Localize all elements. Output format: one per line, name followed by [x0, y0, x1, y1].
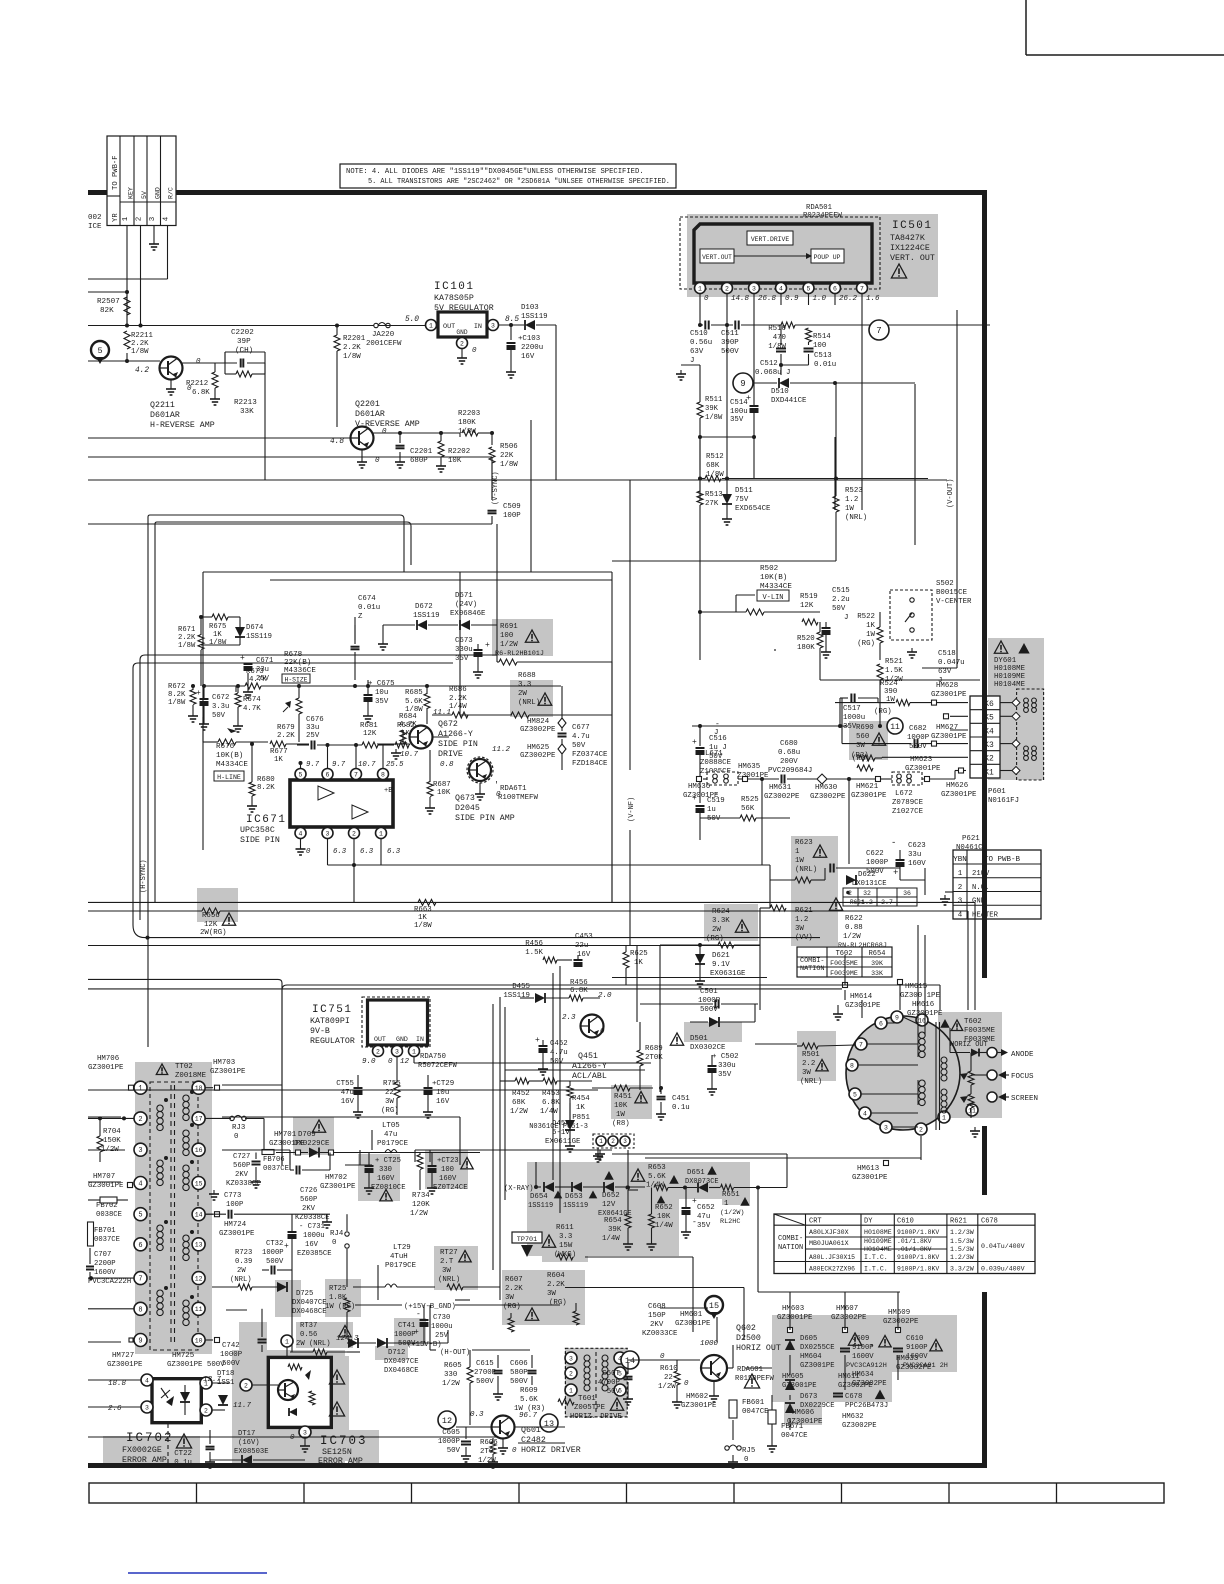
svg-text:33u: 33u	[306, 724, 319, 732]
svg-text:16V: 16V	[341, 1098, 355, 1106]
svg-text:1/2W: 1/2W	[410, 1210, 428, 1218]
svg-text:C60T: C60T	[602, 1370, 620, 1378]
svg-text:R672: R672	[168, 683, 185, 691]
svg-text:T602: T602	[836, 950, 853, 958]
svg-text:2W (NRL): 2W (NRL)	[296, 1340, 331, 1348]
svg-text:56K: 56K	[741, 805, 755, 813]
svg-text:C730: C730	[433, 1314, 450, 1322]
svg-text:D601AR: D601AR	[150, 411, 180, 420]
svg-text:Z: Z	[358, 613, 363, 621]
svg-text:TA8427K: TA8427K	[890, 234, 925, 243]
svg-text:GZ3001PE: GZ3001PE	[852, 1174, 888, 1182]
svg-text:1000P: 1000P	[866, 859, 889, 867]
svg-text:5.6K: 5.6K	[648, 1173, 666, 1181]
svg-text:R681: R681	[360, 722, 378, 730]
svg-text:3: 3	[884, 1124, 888, 1131]
svg-text:R512: R512	[706, 453, 724, 461]
svg-text:D601AR: D601AR	[355, 410, 385, 419]
svg-text:SIDE PIN: SIDE PIN	[240, 836, 280, 845]
svg-text:R454: R454	[572, 1095, 590, 1103]
svg-text:+ CT25: + CT25	[375, 1157, 401, 1165]
svg-text:0.9: 0.9	[785, 295, 799, 303]
svg-text:2: 2	[376, 1048, 380, 1055]
svg-text:3: 3	[303, 1429, 307, 1436]
svg-text:0.88: 0.88	[845, 924, 863, 932]
svg-text:100P: 100P	[503, 512, 521, 520]
svg-text:35V: 35V	[718, 1071, 732, 1079]
svg-text:(V-NF): (V-NF)	[628, 797, 636, 822]
svg-text:R651: R651	[722, 1191, 740, 1199]
svg-text:9100P/1.8KV: 9100P/1.8KV	[897, 1254, 939, 1261]
svg-text:6.8K: 6.8K	[570, 987, 588, 995]
svg-text:4: 4	[163, 216, 171, 221]
svg-text:HM625: HM625	[527, 744, 549, 752]
svg-text:Q2201: Q2201	[355, 400, 380, 409]
svg-text:H0109ME: H0109ME	[864, 1238, 892, 1245]
svg-text:C609: C609	[852, 1335, 869, 1343]
svg-text:1/8W: 1/8W	[168, 699, 186, 707]
svg-text:C674: C674	[358, 595, 376, 603]
svg-text:COMBI-: COMBI-	[778, 1235, 803, 1243]
svg-text:H-LINE: H-LINE	[217, 774, 241, 781]
svg-text:0: 0	[512, 1447, 517, 1455]
svg-text:(NRL): (NRL)	[845, 514, 867, 522]
svg-text:1: 1	[942, 1114, 946, 1121]
svg-text:1K: 1K	[213, 631, 222, 639]
svg-text:CT41: CT41	[398, 1322, 415, 1330]
svg-text:0038CE: 0038CE	[96, 1211, 122, 1219]
svg-text:0.1u: 0.1u	[672, 1104, 690, 1112]
svg-text:R679: R679	[277, 724, 295, 732]
svg-text:GZ3002PE: GZ3002PE	[520, 752, 556, 760]
svg-text:10K: 10K	[437, 789, 451, 797]
svg-text:10u: 10u	[375, 689, 388, 697]
svg-text:10K: 10K	[614, 1102, 628, 1110]
svg-text:16V: 16V	[305, 1241, 319, 1249]
svg-text:EX06846E: EX06846E	[450, 610, 486, 618]
svg-text:1K: 1K	[274, 756, 283, 764]
svg-text:R673: R673	[246, 668, 264, 676]
svg-text:D510: D510	[771, 388, 789, 396]
svg-text:3.3u: 3.3u	[212, 703, 229, 711]
svg-text:10K: 10K	[657, 1213, 671, 1221]
svg-text:F0039ME: F0039ME	[830, 970, 858, 977]
svg-text:HM626: HM626	[946, 782, 968, 790]
svg-text:CT22: CT22	[174, 1450, 192, 1458]
svg-text:9.7: 9.7	[306, 761, 320, 769]
svg-text:96.7: 96.7	[519, 1412, 538, 1420]
svg-text:13: 13	[195, 1242, 203, 1249]
svg-text:VERT. OUT: VERT. OUT	[890, 254, 935, 263]
svg-text:R675: R675	[209, 623, 226, 631]
svg-text:+: +	[196, 689, 201, 698]
svg-text:HORIZ. DRIVE: HORIZ. DRIVE	[570, 1413, 622, 1421]
svg-text:50V: 50V	[572, 742, 586, 750]
svg-text:12V: 12V	[602, 1201, 616, 1209]
svg-text:39K: 39K	[871, 960, 883, 967]
svg-text:2.2K: 2.2K	[277, 732, 295, 740]
svg-text:3: 3	[149, 216, 157, 221]
svg-text:R652: R652	[655, 1204, 673, 1212]
svg-text:(1/2W): (1/2W)	[720, 1209, 744, 1217]
svg-text:SIDE PIN: SIDE PIN	[438, 740, 478, 749]
svg-text:GZ3002PE: GZ3002PE	[520, 726, 556, 734]
svg-text:9100P/1.8KV: 9100P/1.8KV	[897, 1229, 939, 1236]
svg-text:IC703: IC703	[320, 1434, 368, 1448]
svg-text:GND: GND	[456, 329, 467, 336]
svg-text:T602: T602	[964, 1018, 982, 1026]
svg-text:17: 17	[195, 1116, 203, 1123]
svg-text:1.2: 1.2	[795, 916, 808, 924]
svg-text:1/8W: 1/8W	[178, 642, 196, 650]
svg-text:H0104ME: H0104ME	[994, 681, 1026, 689]
svg-text:(NRL): (NRL)	[230, 1276, 252, 1284]
svg-text:1/4W: 1/4W	[540, 1108, 558, 1116]
svg-text:8: 8	[381, 771, 385, 778]
svg-text:HM607: HM607	[836, 1305, 858, 1313]
svg-text:1: 1	[429, 322, 433, 329]
svg-text:C742: C742	[222, 1342, 240, 1350]
svg-text:Q673: Q673	[455, 794, 475, 803]
svg-text:HM636: HM636	[688, 783, 710, 791]
svg-text:R674: R674	[243, 696, 261, 704]
svg-text:R604: R604	[547, 1272, 565, 1280]
svg-text:0: 0	[600, 1028, 605, 1036]
svg-text:R688: R688	[518, 672, 536, 680]
svg-text:IC702: IC702	[126, 1431, 174, 1445]
svg-text:1: 1	[724, 1200, 729, 1208]
svg-text:- C731: - C731	[299, 1223, 325, 1231]
svg-text:GZ3002PE: GZ3002PE	[764, 793, 800, 801]
svg-text:0.01u: 0.01u	[814, 361, 836, 369]
svg-text:FB601: FB601	[742, 1399, 765, 1407]
svg-text:PVC3CA222H: PVC3CA222H	[88, 1278, 131, 1286]
svg-text:25.5: 25.5	[386, 761, 404, 769]
svg-text:180K: 180K	[458, 419, 476, 427]
svg-text:2: 2	[244, 1382, 248, 1389]
svg-text:+C103: +C103	[518, 335, 540, 343]
svg-text:16V: 16V	[436, 1098, 450, 1106]
svg-text:GZ3001PE: GZ3001PE	[800, 1362, 835, 1370]
svg-text:2W(RG): 2W(RG)	[200, 929, 227, 937]
svg-text:1SS119: 1SS119	[521, 313, 548, 321]
svg-text:2: 2	[611, 1138, 615, 1145]
svg-text:16V: 16V	[577, 951, 591, 959]
svg-text:12: 12	[442, 1416, 452, 1426]
svg-text:2: 2	[569, 1370, 573, 1377]
svg-text:DX0302CE: DX0302CE	[690, 1044, 726, 1052]
svg-text:50V: 50V	[607, 1388, 621, 1396]
svg-text:0: 0	[306, 848, 311, 856]
svg-text:ANODE: ANODE	[1011, 1051, 1034, 1059]
svg-text:C678: C678	[981, 1218, 998, 1226]
svg-text:1W: 1W	[845, 505, 854, 513]
svg-text:5: 5	[138, 1212, 142, 1220]
svg-text:(16V): (16V)	[238, 1439, 260, 1447]
svg-text:HM602: HM602	[686, 1393, 708, 1401]
svg-text:4: 4	[779, 285, 783, 292]
svg-text:14: 14	[195, 1212, 203, 1219]
svg-text:D501: D501	[690, 1035, 708, 1043]
svg-text:(24V): (24V)	[455, 601, 477, 609]
svg-text:3W: 3W	[442, 1267, 451, 1275]
svg-text:C671: C671	[256, 657, 273, 665]
svg-text:1.2: 1.2	[845, 496, 858, 504]
svg-text:P601: P601	[988, 788, 1006, 796]
svg-text:C677: C677	[572, 724, 590, 732]
svg-text:2.6: 2.6	[108, 1405, 122, 1413]
svg-text:10.7: 10.7	[358, 761, 376, 769]
svg-text:2200P: 2200P	[94, 1260, 116, 1268]
svg-text:6.3: 6.3	[387, 848, 401, 856]
svg-text:3.3/2W: 3.3/2W	[950, 1266, 974, 1273]
svg-text:5.6K: 5.6K	[520, 1396, 538, 1404]
svg-text:9: 9	[740, 379, 745, 389]
svg-text:R686: R686	[449, 686, 467, 694]
svg-text:8: 8	[138, 1306, 142, 1314]
svg-text:C726: C726	[300, 1187, 317, 1195]
svg-text:D651: D651	[687, 1169, 705, 1177]
svg-text:2KV: 2KV	[302, 1205, 316, 1213]
svg-text:7: 7	[354, 771, 358, 778]
svg-text:HM707: HM707	[93, 1173, 115, 1181]
svg-text:YR: YR	[112, 213, 120, 222]
svg-text:500V: 500V	[222, 1360, 240, 1368]
svg-text:I.T.C.: I.T.C.	[864, 1266, 888, 1273]
svg-text:0.68u: 0.68u	[778, 749, 800, 757]
svg-text:9100P: 9100P	[906, 1344, 928, 1352]
svg-text:KAT809PI: KAT809PI	[310, 1017, 350, 1026]
svg-text:R452: R452	[512, 1090, 530, 1098]
svg-text:V-CENTER: V-CENTER	[936, 598, 972, 606]
svg-text:1/8W: 1/8W	[343, 353, 361, 361]
svg-text:0.56: 0.56	[300, 1331, 317, 1339]
svg-text:10K(B): 10K(B)	[760, 574, 787, 582]
svg-text:A80L.JF30X15: A80L.JF30X15	[809, 1254, 855, 1261]
svg-text:DX0131CE: DX0131CE	[852, 880, 887, 888]
svg-text:2.2K: 2.2K	[505, 1285, 523, 1293]
svg-text:GZ3002PE: GZ3002PE	[883, 1318, 919, 1326]
svg-text:470: 470	[773, 334, 786, 342]
svg-text:Q602: Q602	[736, 1324, 756, 1333]
svg-text:FB701: FB701	[94, 1227, 116, 1235]
svg-text:R522: R522	[857, 613, 875, 621]
svg-text:5: 5	[97, 346, 102, 356]
svg-text:2.2: 2.2	[802, 1060, 815, 1068]
svg-text:0: 0	[744, 1456, 748, 1464]
svg-text:0.1u: 0.1u	[174, 1459, 192, 1467]
svg-text:1SS119: 1SS119	[246, 633, 272, 641]
svg-text:1/4W: 1/4W	[655, 1222, 673, 1230]
svg-text:Z1027CE: Z1027CE	[892, 808, 924, 816]
svg-text:4: 4	[863, 1110, 867, 1117]
svg-text:C516: C516	[709, 735, 727, 743]
svg-text:IC671: IC671	[246, 814, 287, 826]
svg-text:1000P: 1000P	[220, 1351, 243, 1359]
svg-text:R605: R605	[444, 1362, 462, 1370]
svg-text:0037CE: 0037CE	[263, 1165, 289, 1173]
svg-text:GZ3001PE: GZ3001PE	[851, 792, 887, 800]
svg-text:HM613: HM613	[857, 1165, 879, 1173]
svg-text:0.56u: 0.56u	[690, 339, 712, 347]
svg-text:0: 0	[382, 428, 387, 436]
svg-text:2: 2	[725, 285, 729, 292]
svg-text:2T0K: 2T0K	[645, 1054, 663, 1062]
svg-text:R2202: R2202	[448, 448, 470, 456]
svg-text:FB671: FB671	[781, 1423, 804, 1431]
svg-text:5V: 5V	[141, 191, 148, 199]
svg-text:2W: 2W	[518, 690, 527, 698]
svg-text:D654: D654	[530, 1193, 548, 1201]
svg-text:RJ4: RJ4	[330, 1230, 344, 1238]
svg-text:GZ3002PE: GZ3002PE	[838, 1382, 873, 1390]
svg-text:1K: 1K	[866, 622, 875, 630]
svg-text:3.3: 3.3	[559, 1233, 572, 1241]
svg-text:1/2W: 1/2W	[510, 1108, 528, 1116]
svg-text:D673: D673	[800, 1393, 817, 1401]
svg-text:DX0229CE: DX0229CE	[294, 1140, 330, 1148]
svg-text:GZ3001PE: GZ3001PE	[777, 1314, 813, 1322]
svg-text:390: 390	[884, 688, 897, 696]
svg-text:1600V: 1600V	[852, 1353, 874, 1361]
svg-text:HM702: HM702	[325, 1174, 347, 1182]
svg-text:2.2K: 2.2K	[547, 1281, 565, 1289]
svg-text:EX08503E: EX08503E	[234, 1448, 269, 1456]
svg-text:R723: R723	[235, 1249, 252, 1257]
svg-text:7: 7	[859, 1041, 863, 1048]
svg-text:D712: D712	[388, 1349, 405, 1357]
svg-text:1K: 1K	[576, 1104, 585, 1112]
svg-text:HM628: HM628	[936, 682, 958, 690]
svg-text:I.T.C.: I.T.C.	[864, 1254, 888, 1261]
svg-text:C518: C518	[938, 650, 956, 658]
svg-text:M4334CE: M4334CE	[216, 761, 248, 769]
svg-text:18.8: 18.8	[108, 1380, 127, 1388]
svg-text:P0179CE: P0179CE	[377, 1140, 409, 1148]
svg-text:R525: R525	[741, 796, 759, 804]
svg-text:2: 2	[138, 1116, 142, 1124]
svg-text:C652: C652	[697, 1204, 715, 1212]
svg-text:TO PWB-F: TO PWB-F	[112, 155, 120, 190]
svg-text:R513: R513	[705, 491, 723, 499]
svg-text:GZ3001PE: GZ3001PE	[681, 1402, 717, 1410]
svg-text:1/8W: 1/8W	[209, 639, 227, 647]
svg-text:1W: 1W	[866, 631, 875, 639]
svg-text:1000u: 1000u	[431, 1323, 453, 1331]
svg-text:1/8W: 1/8W	[131, 348, 149, 356]
svg-text:26.2: 26.2	[839, 295, 858, 303]
svg-text:ICE: ICE	[88, 223, 102, 231]
svg-text:560P: 560P	[233, 1162, 250, 1170]
svg-text:IN: IN	[474, 323, 482, 331]
svg-text:H0104ME: H0104ME	[864, 1246, 892, 1253]
svg-text:36: 36	[903, 890, 911, 897]
svg-text:(NRL): (NRL)	[800, 1078, 822, 1086]
svg-text:15: 15	[709, 1301, 719, 1311]
svg-text:39K: 39K	[608, 1226, 622, 1234]
svg-text:C453: C453	[575, 933, 593, 941]
svg-text:R451: R451	[614, 1093, 632, 1101]
svg-text:+: +	[284, 1242, 289, 1251]
svg-text:2: 2	[204, 1407, 208, 1414]
svg-text:3W: 3W	[547, 1290, 556, 1298]
svg-text:DXD441CE: DXD441CE	[771, 397, 807, 405]
svg-text:FZD184CE: FZD184CE	[572, 760, 608, 768]
svg-text:TP701: TP701	[517, 1236, 537, 1244]
svg-text:8: 8	[850, 1062, 854, 1069]
svg-text:C623: C623	[908, 842, 926, 850]
svg-text:EZ0385CE: EZ0385CE	[297, 1250, 332, 1258]
svg-text:RT37: RT37	[300, 1322, 317, 1330]
svg-text:1600V: 1600V	[94, 1269, 116, 1277]
svg-text:.01/1.8KV: .01/1.8KV	[897, 1238, 932, 1245]
svg-text:GZ3001PE: GZ3001PE	[941, 791, 977, 799]
svg-text:1SS119: 1SS119	[528, 1202, 553, 1210]
svg-text:+: +	[746, 393, 751, 403]
svg-text:1.5K: 1.5K	[885, 667, 903, 675]
svg-text:11: 11	[968, 1107, 976, 1114]
svg-text:9.7: 9.7	[332, 761, 346, 769]
svg-text:4: 4	[299, 830, 303, 837]
svg-text:C673: C673	[455, 637, 473, 645]
svg-text:POUP UP: POUP UP	[814, 254, 841, 261]
svg-text:CT55: CT55	[336, 1080, 354, 1088]
svg-text:Z0018ME: Z0018ME	[175, 1072, 207, 1080]
svg-text:C517: C517	[843, 705, 861, 713]
svg-text:NATION: NATION	[800, 965, 824, 973]
svg-text:EX0611GE: EX0611GE	[545, 1138, 581, 1146]
svg-text:10.7: 10.7	[400, 751, 419, 759]
svg-text:100u: 100u	[730, 408, 748, 416]
svg-text:75V: 75V	[735, 496, 749, 504]
svg-text:D2045: D2045	[455, 804, 480, 813]
svg-text:680P: 680P	[410, 457, 428, 465]
svg-text:1/2W: 1/2W	[843, 933, 861, 941]
svg-text:RT27: RT27	[440, 1249, 458, 1257]
svg-text:R511: R511	[705, 396, 722, 404]
svg-text:HM703: HM703	[213, 1059, 235, 1067]
svg-text:+CT29: +CT29	[432, 1080, 454, 1088]
svg-text:P621: P621	[962, 835, 980, 843]
svg-text:KA78S05P: KA78S05P	[434, 294, 474, 303]
svg-text:9.1V: 9.1V	[712, 961, 730, 969]
svg-text:R680: R680	[257, 776, 275, 784]
svg-text:22: 22	[664, 1374, 673, 1382]
svg-text:160V: 160V	[439, 1175, 457, 1183]
svg-text:1K: 1K	[418, 914, 427, 922]
svg-text:3: 3	[569, 1355, 573, 1362]
svg-text:3: 3	[138, 1147, 142, 1155]
svg-text:C511: C511	[721, 330, 739, 338]
svg-text:R611: R611	[556, 1224, 574, 1232]
svg-text:R609: R609	[520, 1387, 538, 1395]
svg-text:10K: 10K	[448, 457, 462, 465]
svg-text:TO PWB-B: TO PWB-B	[984, 856, 1021, 864]
svg-text:2.2K: 2.2K	[178, 634, 196, 642]
svg-text:SIDE PIN AMP: SIDE PIN AMP	[455, 814, 515, 823]
svg-text:N0161FJ: N0161FJ	[988, 797, 1019, 805]
svg-text:1W: 1W	[616, 1111, 625, 1119]
svg-text:5.6K: 5.6K	[405, 698, 423, 706]
svg-text:IX1224CE: IX1224CE	[890, 244, 930, 253]
svg-text:REGULATOR: REGULATOR	[310, 1037, 355, 1046]
svg-text:VERT.OUT: VERT.OUT	[702, 254, 732, 261]
svg-text:HM614: HM614	[850, 993, 873, 1001]
svg-text:2: 2	[919, 1126, 923, 1133]
svg-text:50V: 50V	[707, 815, 721, 823]
svg-text:1: 1	[795, 848, 800, 856]
svg-text:RDA6T1: RDA6T1	[500, 785, 527, 793]
